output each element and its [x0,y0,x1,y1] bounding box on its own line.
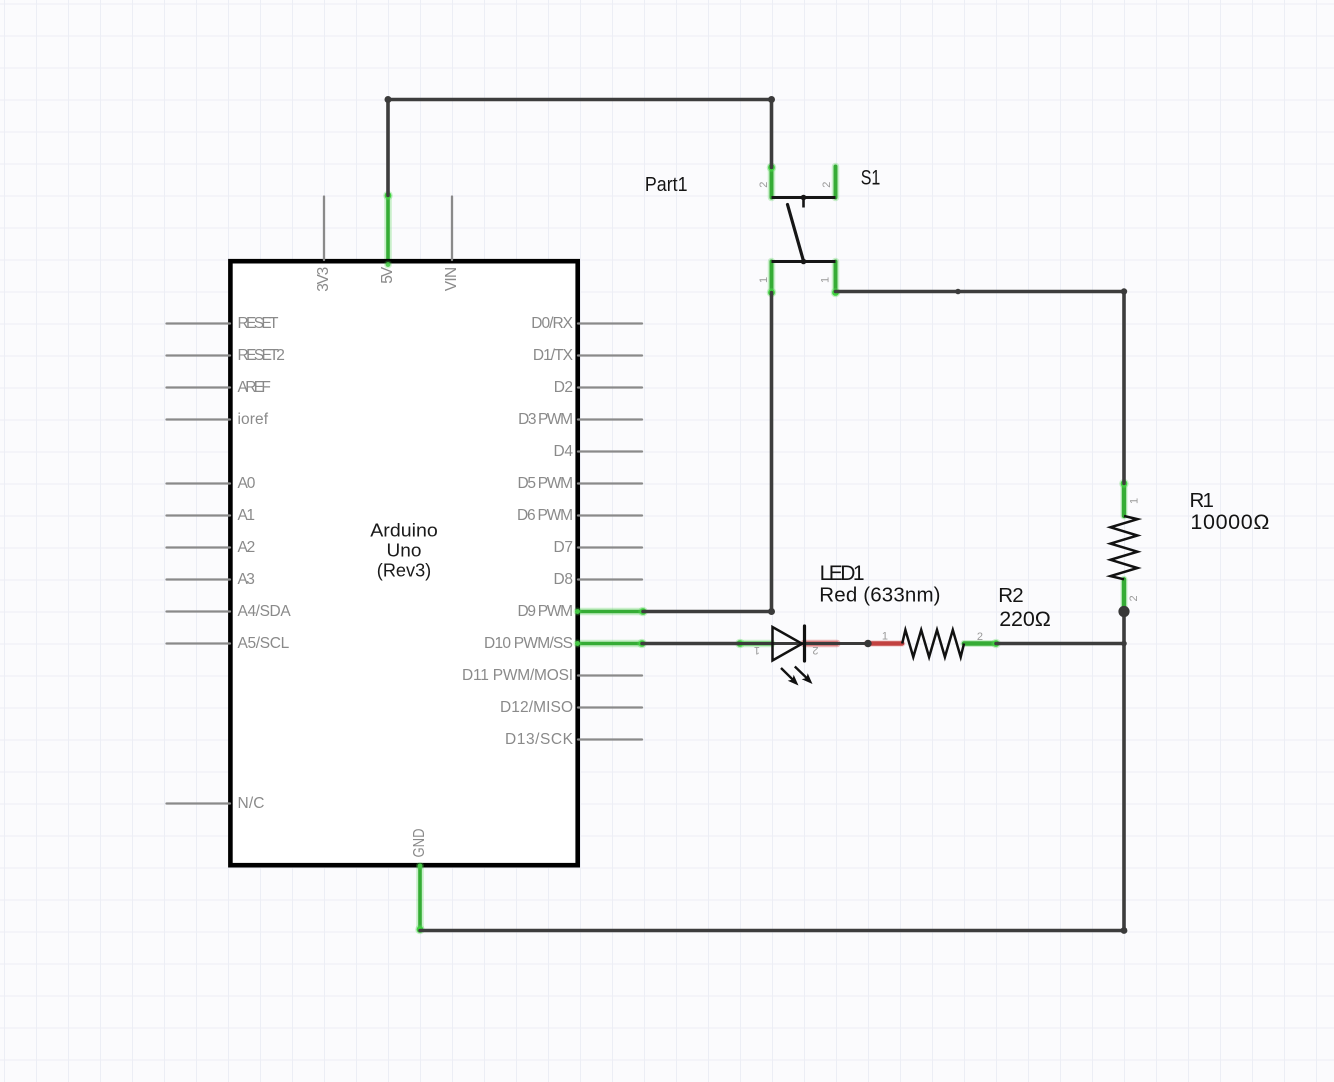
svg-text:1: 1 [1129,498,1141,504]
svg-text:1: 1 [754,644,760,656]
svg-text:1: 1 [820,277,832,283]
LED1 triangle [773,627,803,661]
left pins (stubs + labels) [167,324,231,804]
svg-text:5V: 5V [379,266,396,284]
LED1 label [819,562,940,606]
LED1 cathode bar [803,626,806,661]
svg-text:1: 1 [758,277,770,283]
Arduino Uno body [230,261,577,865]
LED1 emission arrows [781,667,813,686]
svg-text:220Ω: 220Ω [999,607,1051,631]
svg-text:D12/MISO: D12/MISO [500,699,573,716]
S1 lever [788,205,804,262]
R2 pin numbers [882,631,983,643]
LED1 pin numbers [754,644,819,656]
junction dot LED wire [864,640,871,647]
svg-text:10000Ω: 10000Ω [1190,510,1269,534]
svg-text:S1: S1 [861,167,881,190]
svg-text:D11 PWM/MOSI: D11 PWM/MOSI [462,667,573,684]
svg-text:D8: D8 [554,571,574,588]
S1 pin numbers [758,182,833,283]
svg-text:D13/SCK: D13/SCK [505,731,574,748]
svg-text:3V3: 3V3 [315,267,332,292]
svg-text:RESET: RESET [238,315,280,332]
pin D10 green leg [579,639,647,649]
svg-text:D10 PWM/SS: D10 PWM/SS [484,635,573,652]
R1 pin numbers [1128,498,1140,602]
node A junction dot (R1 pin2) [1118,606,1129,617]
svg-text:D7: D7 [554,539,574,556]
svg-text:2: 2 [1012,584,1023,607]
pin GND green leg [415,866,425,934]
svg-text:R: R [998,584,1013,607]
S1 pin 1 right leg [832,262,840,293]
svg-text:Arduino: Arduino [370,520,438,541]
R2 label [998,584,1051,631]
R2 zigzag [902,630,964,657]
inner pin glow dots on body edge [384,261,392,269]
svg-text:A5/SCL: A5/SCL [238,635,290,652]
pin 5V green leg [383,191,393,263]
R1 label [1190,489,1270,534]
svg-text:2: 2 [758,182,770,188]
svg-text:AREF: AREF [238,379,271,396]
svg-text:LED1: LED1 [820,562,865,585]
resistor R2 symbol [882,630,983,657]
svg-text:Red (633nm): Red (633nm) [819,584,940,607]
S1 pin 2 right leg [832,167,840,198]
svg-text:A2: A2 [238,539,256,556]
switch S1 legs [767,163,841,298]
wire D10 to LED1 pin1 [642,642,740,646]
svg-text:D9 PWM: D9 PWM [518,603,574,620]
LED1 pin 1 leg (green) [735,639,772,649]
svg-text:D5 PWM: D5 PWM [518,475,574,492]
svg-text:D6 PWM: D6 PWM [517,507,573,524]
svg-text:(Rev3): (Rev3) [377,559,431,580]
svg-text:RESET2: RESET2 [238,347,285,364]
svg-text:D3 PWM: D3 PWM [518,411,573,428]
svg-text:2: 2 [821,182,833,188]
R1 zigzag [1111,516,1138,579]
svg-text:GND: GND [411,829,428,858]
top pin labels [315,266,460,292]
svg-text:2: 2 [812,644,818,656]
Arduino Uno title [370,520,438,581]
S1 top bar [772,196,836,199]
R1 pin 1 leg (green) [1119,479,1129,516]
right pins (stubs + labels) [578,324,642,740]
svg-text:2: 2 [1128,595,1140,601]
svg-text:Uno: Uno [387,539,422,560]
svg-text:A1: A1 [238,507,256,524]
pin D9 green leg [579,607,648,617]
svg-text:1: 1 [1203,489,1214,512]
svg-text:A3: A3 [238,571,255,588]
svg-text:A4/SDA: A4/SDA [238,603,292,620]
svg-text:D1/TX: D1/TX [533,347,574,364]
switch S1 symbol [758,182,836,283]
resistor R1 symbol [1111,498,1141,602]
svg-text:N/C: N/C [238,795,265,812]
wire R1 pin2 to GND (via bottom) [420,612,1127,934]
svg-text:D0/RX: D0/RX [531,315,573,332]
S1 bottom bar [772,260,836,263]
svg-text:A0: A0 [238,475,256,492]
R2 pin 2 leg (green) [964,639,1001,649]
svg-text:D4: D4 [554,443,574,460]
wire S1 pin1 to R1 pin1 [836,288,1128,483]
S1 pin 1 left leg [768,262,776,293]
svg-text:D2: D2 [554,379,573,396]
svg-text:2: 2 [977,631,983,643]
svg-text:ioref: ioref [238,411,269,428]
svg-text:1: 1 [882,631,888,643]
svg-text:Part1: Part1 [645,174,688,196]
LED1 pin 2 leg (red) [804,640,837,647]
wire LED1 pin2 to R2 pin1 (red) [867,640,903,647]
svg-text:VIN: VIN [443,267,460,292]
wire 5V to S1 pin2 [385,96,776,196]
LED1 through line [740,642,867,645]
LED LED1 symbol [740,626,872,686]
R1 pin 2 leg (green) [1119,579,1129,616]
wire D9 to S1 pin1 [643,293,775,616]
top pins 3V3 VIN (stubs) [324,197,452,261]
S1 pivot dot + stub [801,195,807,201]
S1 pin 2 left leg [768,167,776,198]
wire R2 pin2 to node A [996,641,1127,647]
